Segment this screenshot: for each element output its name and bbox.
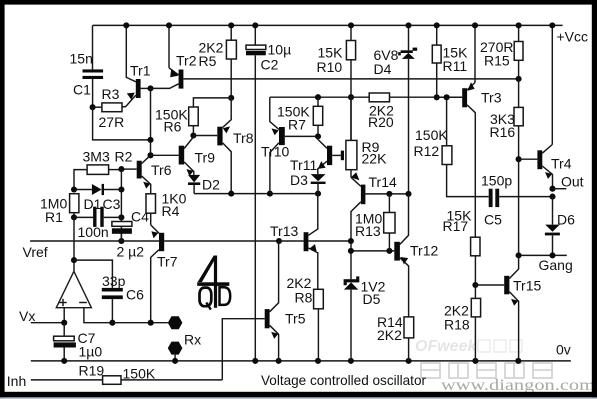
node C4 on Vref line	[118, 238, 124, 244]
node R12 top junction	[444, 94, 450, 100]
node feedback join x150	[147, 137, 153, 143]
resistor R8	[287, 275, 324, 361]
capacitor C6	[102, 273, 144, 323]
node Tr12 base branch	[348, 248, 354, 254]
resistor R13	[355, 194, 395, 251]
diode D2	[188, 175, 220, 194]
transistor Tr8	[193, 98, 253, 194]
svg-text:100n: 100n	[78, 224, 109, 240]
resistor R14	[377, 314, 414, 361]
node D1 left junction	[71, 186, 77, 192]
node R15/R16 junction	[516, 76, 522, 82]
svg-text:R16: R16	[490, 124, 516, 140]
svg-text:R12: R12	[414, 143, 440, 159]
resistor R15	[480, 25, 523, 79]
wire feedback down-right to x150	[93, 107, 151, 140]
wire 0v rail	[31, 360, 571, 362]
transistor Tr3	[437, 25, 502, 237]
node C5 right junction	[549, 194, 555, 200]
resistor R1	[40, 194, 79, 225]
svg-text:Rx: Rx	[184, 332, 201, 348]
node Tr6 collector/Tr9 base junction	[147, 152, 153, 158]
svg-text:C5: C5	[484, 212, 502, 228]
wire Inh line	[31, 379, 103, 381]
svg-text:R5: R5	[199, 53, 217, 69]
svg-text:Tr8: Tr8	[233, 130, 254, 146]
svg-text:Tr6: Tr6	[151, 162, 172, 178]
diode D6	[545, 197, 575, 256]
svg-text:1µ0: 1µ0	[79, 344, 103, 360]
wire inverting node to Rx	[112, 322, 167, 324]
resistor R16	[490, 79, 524, 256]
zener diode D5	[344, 276, 386, 361]
zener diode D4	[374, 25, 418, 194]
transistor Tr10 collector wire	[270, 143, 279, 194]
svg-text:27R: 27R	[99, 114, 125, 130]
wire Vref line	[30, 240, 159, 242]
svg-text:www.diangon.com: www.diangon.com	[441, 377, 595, 394]
svg-text:R6: R6	[164, 119, 182, 135]
svg-text:Inh: Inh	[7, 373, 26, 389]
QTD logo	[197, 256, 230, 310]
node R7/Tr10 base/Tr11 collector junction	[315, 133, 321, 139]
svg-text:22K: 22K	[362, 151, 388, 167]
svg-text:D1: D1	[84, 196, 102, 212]
svg-text:D3: D3	[290, 172, 308, 188]
node Tr4 base junction	[516, 156, 522, 162]
svg-text:150K: 150K	[415, 127, 448, 143]
node Tr1 base/Tr2 collector junction	[147, 85, 153, 91]
node R7 top junction	[315, 94, 321, 100]
resistor R5	[199, 25, 237, 98]
svg-text:D6: D6	[557, 212, 575, 228]
wire y97.2 horizontal	[270, 96, 462, 98]
svg-text:+Vcc: +Vcc	[557, 29, 589, 45]
capacitor C4	[112, 209, 149, 260]
node R6/Tr9 collector/Tr8 base	[190, 132, 196, 138]
node Rx on 0v rail	[172, 358, 178, 364]
pad Rx bottom hexagon	[168, 342, 183, 355]
node R2/Tr6 base junction	[118, 166, 124, 172]
wire Tr12 base line	[351, 250, 394, 252]
node D5 on 0v rail	[348, 358, 354, 364]
wire: top +Vcc rail	[93, 24, 563, 26]
node Out stub	[553, 188, 567, 190]
diode D1	[74, 184, 121, 212]
svg-text:Tr9: Tr9	[195, 150, 216, 166]
svg-text:Tr15: Tr15	[513, 278, 541, 294]
node R1/C3 left junction	[71, 214, 77, 220]
node Out junction	[549, 186, 555, 192]
svg-text:R18: R18	[444, 317, 470, 333]
svg-text:Tr1: Tr1	[130, 63, 151, 79]
wire Rx pad to 0v	[174, 355, 176, 361]
svg-text:15n: 15n	[70, 51, 93, 67]
transistor Tr9	[151, 136, 216, 176]
node op-amp output branch	[71, 257, 77, 263]
svg-text:Tr10: Tr10	[261, 144, 289, 160]
svg-text:D2: D2	[202, 177, 220, 193]
svg-text:150p: 150p	[481, 173, 512, 189]
resistor R18	[444, 298, 481, 361]
svg-text:R8: R8	[295, 290, 313, 306]
node inverting input junction	[109, 320, 115, 326]
node R10/R9 junction	[348, 94, 354, 100]
svg-text:R4: R4	[162, 203, 180, 219]
node R10 on Vcc rail	[348, 22, 354, 28]
svg-text:C3: C3	[103, 196, 121, 212]
resistor R11	[432, 25, 468, 97]
svg-text:Tr5: Tr5	[285, 311, 306, 327]
transistor Tr5	[265, 241, 306, 361]
watermark chinese blocks grey	[421, 363, 552, 378]
svg-text:R3: R3	[102, 86, 120, 102]
node Tr2 emitter on Vcc rail	[166, 22, 172, 28]
node Gang line	[519, 254, 567, 256]
transistor Tr14	[351, 172, 409, 279]
resistor R12	[414, 97, 489, 196]
node C3 right junction	[118, 214, 124, 220]
node Tr7 collector/Rx junction	[148, 320, 154, 326]
transistor Tr4	[519, 145, 572, 189]
resistor R19	[79, 363, 223, 385]
node R13 top junction	[386, 191, 392, 197]
svg-text:C1: C1	[73, 82, 91, 98]
svg-text:R2: R2	[115, 149, 133, 165]
node Tr10 collector on line	[267, 191, 273, 197]
wire cluster right rail x121	[120, 169, 122, 241]
wire Vcc to Tr4 collector	[551, 25, 553, 144]
svg-text:Voltage controlled oscillator: Voltage controlled oscillator	[261, 372, 426, 388]
svg-text:33p: 33p	[102, 273, 126, 289]
wire long line y78.9 from Tr2 base	[183, 78, 518, 80]
svg-text:R7: R7	[288, 117, 306, 133]
node C1/R3 junction	[90, 104, 96, 110]
node Tr1 collector on Vcc rail	[123, 22, 129, 28]
transistor Tr10	[261, 97, 318, 159]
capacitor C3	[74, 207, 121, 240]
node Vx/C7 junction	[61, 320, 67, 326]
svg-text:Tr12: Tr12	[410, 243, 438, 259]
svg-text:R10: R10	[317, 59, 343, 75]
resistor R3	[93, 86, 126, 130]
node R13 bottom junction	[386, 248, 392, 254]
node Tr8 collector on line	[228, 191, 234, 197]
svg-text:C6: C6	[126, 287, 144, 303]
svg-text:Tr13: Tr13	[270, 223, 298, 239]
wire op-amp output rail x74	[73, 217, 75, 271]
svg-text:R17: R17	[443, 218, 469, 234]
resistor R4	[146, 191, 187, 225]
capacitor C5	[481, 173, 553, 228]
node R11 on Vcc rail	[434, 22, 440, 28]
svg-text:OFweek: OFweek	[415, 338, 477, 355]
svg-text:R20: R20	[368, 114, 394, 130]
node R15 on Vcc rail	[516, 22, 522, 28]
resistor R6	[155, 98, 231, 136]
svg-text:R11: R11	[443, 58, 468, 74]
node D3/Tr13 collector junction	[315, 191, 321, 197]
transistor Tr7	[151, 225, 279, 323]
wire Inh riser to Tr5 base	[222, 319, 264, 380]
svg-text:Tr7: Tr7	[157, 254, 178, 270]
node Tr15 emitter on 0v rail	[515, 358, 521, 364]
svg-text:R1: R1	[45, 209, 63, 225]
pad Rx top hexagon	[168, 316, 183, 329]
resistor R10	[317, 25, 356, 140]
svg-text:2K2: 2K2	[377, 327, 402, 343]
node Tr5 collector on Vref line	[276, 238, 282, 244]
transistor Tr1	[126, 25, 151, 106]
transistor Tr6	[121, 155, 171, 194]
resistor R20	[368, 93, 394, 130]
capacitor C2	[246, 25, 291, 361]
svg-text:Tr3: Tr3	[481, 90, 502, 106]
capacitor C7	[54, 323, 103, 361]
node C7 on 0v rail	[61, 358, 67, 364]
svg-text:150K: 150K	[123, 366, 156, 382]
node R5/R6/Tr8 junction	[228, 95, 234, 101]
capacitor C1	[70, 25, 104, 107]
node D6/Gang junction	[549, 252, 555, 258]
svg-text:R13: R13	[355, 223, 381, 239]
node D4/Tr12 collector junction	[405, 191, 411, 197]
node D4 on Vcc rail	[405, 22, 411, 28]
trimpot R9	[346, 97, 387, 177]
node Vcc rail right	[549, 22, 555, 28]
node R8 on 0v rail	[315, 358, 321, 364]
svg-text:R19: R19	[79, 363, 105, 379]
diode D3	[290, 172, 326, 194]
transistor Tr11	[290, 136, 344, 174]
node C2 on 0v rail	[252, 358, 258, 364]
transistor Tr15	[475, 255, 541, 361]
transistor Tr13	[270, 194, 351, 290]
resistor R2	[74, 149, 133, 190]
svg-text:Tr11: Tr11	[290, 157, 317, 173]
node Vref line end on Tr14 collector	[348, 238, 354, 244]
wire line y193.6 left	[194, 193, 318, 195]
node D1 right junction	[118, 186, 124, 192]
svg-text:D4: D4	[374, 61, 392, 77]
svg-text:C2: C2	[261, 57, 279, 73]
node Tr15 collector junction	[516, 252, 522, 258]
wire vertical x150	[150, 88, 152, 155]
svg-text:2 µ2: 2 µ2	[117, 244, 145, 260]
op-amp U1	[56, 271, 112, 322]
svg-text:Gang: Gang	[539, 257, 573, 273]
node R5 on Vcc rail	[228, 22, 234, 28]
svg-text:Tr2: Tr2	[176, 53, 197, 69]
node Tr3 emitter on Vcc rail	[472, 22, 478, 28]
node R18 on 0v rail	[472, 358, 478, 364]
svg-text:0v: 0v	[556, 342, 571, 358]
resistor R17	[443, 208, 481, 299]
watermark OFweek grey	[415, 338, 522, 355]
node Tr5 emitter on 0v rail	[276, 358, 282, 364]
svg-text:R15: R15	[484, 53, 510, 69]
node R14 on 0v rail	[406, 358, 412, 364]
transistor Tr2	[151, 25, 197, 88]
node R17/R18/Tr15 base junction	[472, 282, 478, 288]
svg-text:Vx: Vx	[19, 308, 35, 324]
wire Vx line	[31, 322, 64, 324]
transistor Tr12	[394, 194, 438, 317]
node R11/Tr3 base junction	[434, 94, 440, 100]
svg-text:10µ: 10µ	[268, 42, 292, 58]
svg-text:3M3: 3M3	[83, 149, 110, 165]
resistor R7	[277, 97, 323, 136]
svg-text:Out: Out	[561, 174, 584, 190]
svg-text:D5: D5	[363, 291, 381, 307]
border frame	[0, 0, 597, 5]
svg-text:Vref: Vref	[23, 244, 48, 260]
svg-text:Tr4: Tr4	[551, 156, 572, 172]
node C2 on Vcc rail	[252, 22, 258, 28]
svg-text:Tr14: Tr14	[369, 174, 397, 190]
wire Vref extension to x351	[279, 240, 304, 242]
wire op-amp output to C6	[74, 260, 112, 288]
